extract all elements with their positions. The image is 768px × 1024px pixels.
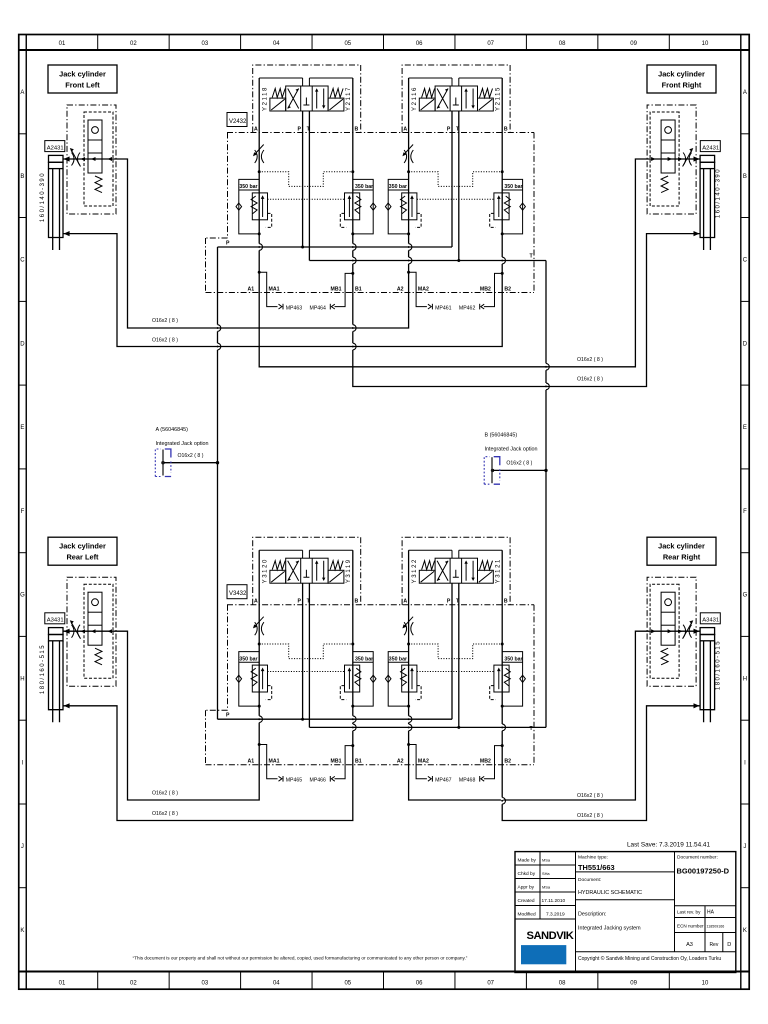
svg-text:MSa: MSa (542, 885, 551, 890)
svg-text:118509166: 118509166 (707, 924, 725, 928)
svg-text:A: A (743, 90, 747, 96)
svg-text:MB2: MB2 (480, 759, 491, 765)
wire B2' to Rear Right rod (502, 550, 700, 820)
svg-text:09: 09 (630, 980, 637, 986)
P supply net (161, 111, 452, 721)
svg-text:B2: B2 (504, 287, 511, 293)
svg-text:MB1: MB1 (331, 759, 342, 765)
svg-text:A3431: A3431 (47, 618, 64, 624)
svg-text:A2431: A2431 (702, 145, 719, 151)
svg-text:08: 08 (559, 980, 566, 986)
svg-text:B (56046845): B (56046845) (485, 432, 518, 438)
svg-text:G: G (20, 593, 25, 599)
svg-text:03: 03 (202, 41, 209, 47)
svg-text:A3: A3 (686, 942, 693, 948)
svg-text:01: 01 (59, 41, 66, 47)
svg-text:180/160-515: 180/160-515 (716, 640, 722, 690)
svg-text:01: 01 (59, 980, 66, 986)
svg-text:MP464: MP464 (310, 306, 327, 312)
svg-text:H: H (20, 677, 24, 683)
svg-text:A: A (403, 127, 407, 133)
svg-text:17.11.2010: 17.11.2010 (542, 898, 566, 904)
svg-text:Document number:: Document number: (677, 854, 718, 860)
svg-text:D: D (743, 341, 748, 347)
svg-text:Integrated Jack option: Integrated Jack option (156, 441, 209, 447)
svg-text:Jack cylinder: Jack cylinder (658, 542, 705, 551)
cylinder id labels (45, 141, 721, 624)
svg-text:A3431: A3431 (702, 618, 719, 624)
integrated jack option A (155, 427, 208, 477)
svg-text:MP462: MP462 (459, 306, 476, 312)
svg-text:MB2: MB2 (480, 287, 491, 293)
wire A2 to Front Left piston (63, 78, 408, 328)
svg-text:02: 02 (130, 980, 137, 986)
svg-text:B1: B1 (355, 759, 362, 765)
sandvik logo (521, 930, 574, 964)
svg-text:V3432: V3432 (229, 591, 247, 597)
svg-text:05: 05 (344, 980, 351, 986)
jack cylinder assembly Rear Left (49, 577, 117, 722)
svg-text:P: P (298, 127, 302, 133)
test point labels (286, 306, 476, 784)
svg-text:MA1: MA1 (269, 287, 280, 293)
svg-text:04: 04 (273, 980, 280, 986)
svg-text:07: 07 (487, 980, 494, 986)
svg-text:09: 09 (630, 41, 637, 47)
svg-text:Appr by: Appr by (518, 885, 535, 891)
svg-text:P: P (226, 713, 230, 719)
svg-text:160/140-390: 160/140-390 (716, 168, 722, 218)
svg-text:Jack cylinder: Jack cylinder (59, 70, 106, 79)
svg-text:Jack cylinder: Jack cylinder (59, 542, 106, 551)
svg-text:O16x2 ( 8 ): O16x2 ( 8 ) (577, 377, 603, 383)
svg-text:A2: A2 (397, 287, 404, 293)
svg-text:Integrated Jack option: Integrated Jack option (485, 446, 538, 452)
valve block V3432 section 2 (385, 537, 525, 781)
jack cylinder title boxes (48, 65, 716, 565)
svg-text:Y2117: Y2117 (346, 86, 352, 111)
svg-text:BG00197250-D: BG00197250-D (677, 867, 730, 876)
svg-text:10: 10 (702, 41, 709, 47)
jack cylinder assembly Rear Right (647, 577, 715, 722)
hose labels O16x2 (152, 318, 603, 819)
svg-text:7.3.2019: 7.3.2019 (546, 912, 565, 918)
svg-text:B: B (504, 599, 508, 605)
svg-text:F: F (21, 509, 25, 515)
svg-text:Rev: Rev (709, 942, 718, 948)
svg-text:O16x2 ( 8 ): O16x2 ( 8 ) (152, 338, 178, 344)
svg-text:MP463: MP463 (286, 306, 303, 312)
svg-text:A: A (254, 127, 258, 133)
svg-text:180/160-515: 180/160-515 (40, 644, 46, 694)
svg-text:B1: B1 (355, 287, 362, 293)
svg-text:10: 10 (702, 980, 709, 986)
wire B1' to Rear Left rod (63, 550, 353, 820)
svg-text:04: 04 (273, 41, 280, 47)
svg-text:MP467: MP467 (435, 778, 452, 784)
svg-text:05: 05 (344, 41, 351, 47)
svg-text:Machine type:: Machine type: (578, 854, 608, 860)
wire A1' to Rear Left piston (63, 550, 259, 800)
integrated jack option B (484, 432, 537, 484)
svg-text:O16x2 ( 8 ): O16x2 ( 8 ) (152, 811, 178, 817)
svg-text:Y2116: Y2116 (412, 86, 418, 111)
svg-text:MP465: MP465 (286, 778, 303, 784)
svg-text:K: K (743, 928, 747, 934)
svg-text:G: G (743, 593, 748, 599)
svg-text:Y2115: Y2115 (496, 86, 502, 111)
svg-text:SHa: SHa (542, 871, 550, 876)
svg-text:B: B (743, 174, 747, 180)
svg-text:HYDRAULIC SCHEMATIC: HYDRAULIC SCHEMATIC (578, 890, 642, 896)
svg-text:O16x2 ( 8 ): O16x2 ( 8 ) (577, 793, 603, 799)
svg-text:MA2: MA2 (418, 759, 429, 765)
svg-text:Rear Left: Rear Left (66, 553, 99, 562)
svg-text:Y3120: Y3120 (263, 558, 269, 583)
svg-text:E: E (20, 425, 24, 431)
svg-text:O16x2 ( 8 ): O16x2 ( 8 ) (152, 318, 178, 324)
wire B2 to Front Left rod (63, 78, 502, 347)
svg-text:H: H (743, 677, 747, 683)
valve id labels (227, 113, 247, 599)
svg-text:P: P (226, 241, 230, 247)
svg-text:O16x2 ( 8 ): O16x2 ( 8 ) (577, 357, 603, 363)
T return net (309, 111, 547, 729)
svg-text:03: 03 (202, 980, 209, 986)
wire A2' to Rear Right piston (409, 550, 700, 800)
cylinder size texts rotated (40, 168, 722, 694)
valve block V2432 section 2 (385, 65, 525, 309)
svg-text:Last Save: 7.3.2019 11.54.41: Last Save: 7.3.2019 11.54.41 (627, 842, 710, 849)
svg-text:“This document is our property: “This document is our property and shall… (133, 955, 468, 960)
svg-text:P: P (447, 127, 451, 133)
svg-text:Document:: Document: (578, 877, 601, 883)
svg-text:O16x2 ( 8 ): O16x2 ( 8 ) (152, 791, 178, 797)
svg-text:Description:: Description: (578, 912, 606, 918)
wire A1 to Front Right piston (259, 78, 700, 367)
svg-text:F: F (743, 509, 747, 515)
svg-text:160/140-390: 160/140-390 (40, 172, 46, 222)
svg-text:A (56046845): A (56046845) (156, 427, 189, 433)
svg-text:MP461: MP461 (435, 306, 452, 312)
svg-text:MP466: MP466 (310, 778, 327, 784)
svg-text:C: C (743, 258, 748, 264)
svg-text:Y3121: Y3121 (496, 558, 502, 583)
svg-text:06: 06 (416, 41, 423, 47)
svg-text:E: E (743, 425, 747, 431)
svg-text:A2: A2 (397, 759, 404, 765)
svg-text:A: A (403, 599, 407, 605)
svg-text:Y3119: Y3119 (346, 558, 352, 583)
svg-text:Front Left: Front Left (65, 81, 100, 90)
svg-text:B: B (355, 127, 359, 133)
manifold V3432 boundary (206, 605, 535, 765)
svg-text:B2: B2 (504, 759, 511, 765)
manifold V2432 boundary (206, 133, 535, 293)
svg-text:Created: Created (518, 898, 535, 904)
svg-text:MA1: MA1 (269, 759, 280, 765)
svg-text:A1: A1 (248, 759, 255, 765)
valve block V3432 section 1 (236, 537, 376, 781)
svg-text:Y3122: Y3122 (412, 558, 418, 583)
svg-text:Modified: Modified (518, 912, 536, 918)
svg-text:P: P (298, 599, 302, 605)
svg-text:V2432: V2432 (229, 119, 247, 125)
svg-text:Last rev. by: Last rev. by (677, 909, 701, 914)
svg-text:HA: HA (707, 909, 715, 915)
valve block V2432 section 1 (236, 65, 376, 309)
svg-text:D: D (727, 942, 731, 948)
svg-text:Front Right: Front Right (662, 81, 702, 90)
port letter labels top manifold (226, 127, 534, 293)
svg-text:02: 02 (130, 41, 137, 47)
svg-text:06: 06 (416, 980, 423, 986)
svg-text:B: B (504, 127, 508, 133)
svg-text:C: C (20, 258, 25, 264)
svg-text:Copyright © Sandvik Mining and: Copyright © Sandvik Mining and Construct… (578, 955, 721, 962)
svg-text:MP468: MP468 (459, 778, 476, 784)
svg-text:K: K (20, 928, 24, 934)
svg-text:Chkd by: Chkd by (518, 871, 536, 877)
svg-text:MB1: MB1 (331, 287, 342, 293)
svg-text:SANDVIK: SANDVIK (527, 930, 574, 942)
svg-text:B: B (355, 599, 359, 605)
svg-text:O16x2 ( 8 ): O16x2 ( 8 ) (577, 813, 603, 819)
svg-text:07: 07 (487, 41, 494, 47)
svg-text:B: B (20, 174, 24, 180)
svg-text:O16x2 ( 8 ): O16x2 ( 8 ) (178, 453, 204, 459)
svg-text:Rear Right: Rear Right (663, 553, 701, 562)
svg-text:MSa: MSa (542, 858, 551, 863)
svg-text:Integrated Jacking system: Integrated Jacking system (578, 926, 641, 932)
svg-text:D: D (20, 341, 25, 347)
svg-text:ECN number: ECN number (677, 924, 704, 929)
svg-text:O16x2 ( 8 ): O16x2 ( 8 ) (506, 461, 532, 467)
svg-text:TH551/663: TH551/663 (578, 863, 615, 872)
svg-text:A2431: A2431 (47, 145, 64, 151)
jack cylinder assembly Front Right (647, 105, 715, 250)
solenoid labels rotated (263, 86, 502, 583)
wire crossing hops (216, 244, 549, 805)
jack cylinder assembly Front Left (49, 105, 117, 250)
svg-text:P: P (447, 599, 451, 605)
svg-text:A: A (254, 599, 258, 605)
svg-text:Y2118: Y2118 (263, 86, 269, 111)
svg-text:J: J (743, 844, 746, 850)
svg-text:A: A (20, 90, 24, 96)
svg-text:Jack cylinder: Jack cylinder (658, 70, 705, 79)
svg-text:J: J (21, 844, 24, 850)
port letter labels bottom manifold (226, 599, 534, 765)
title block (515, 852, 736, 973)
svg-text:Made by: Made by (518, 858, 537, 864)
wire B1 to Front Right rod (353, 78, 700, 387)
svg-text:08: 08 (559, 41, 566, 47)
svg-text:A1: A1 (248, 287, 255, 293)
svg-text:MA2: MA2 (418, 287, 429, 293)
